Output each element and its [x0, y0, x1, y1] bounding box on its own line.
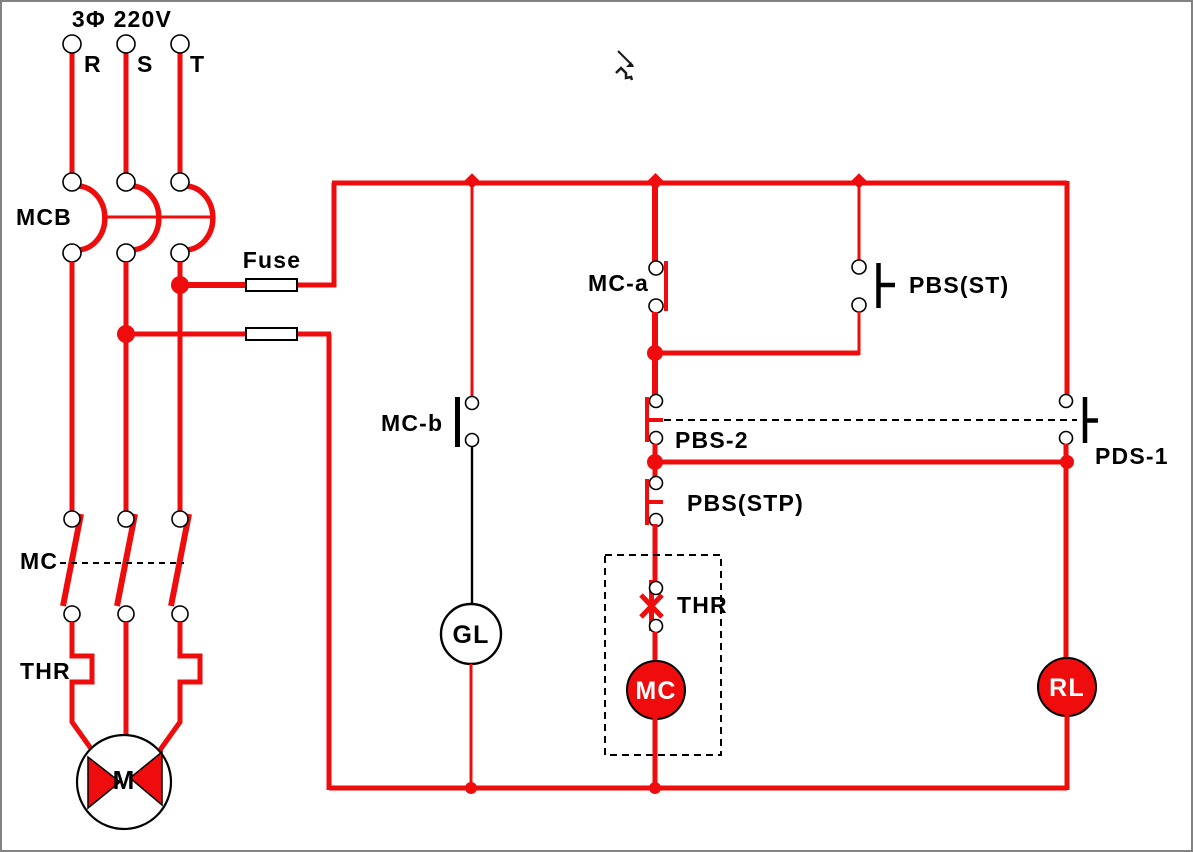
- wire GL branch upper: [471, 183, 474, 400]
- fuse F2 body: [246, 328, 297, 340]
- motor M right rotor wedge: [130, 752, 162, 805]
- breaker MCB pole 3 arc: [185, 186, 213, 250]
- breaker MCB pole 1 top contact: [63, 173, 81, 191]
- contactor MC pole 1 blade: [63, 514, 81, 606]
- pushbutton PBS-2 blade: [647, 397, 663, 442]
- wire S phase MCB to MC: [124, 262, 129, 513]
- heater THR pole 3: [155, 622, 200, 757]
- mechanical link PBS-2 to PBS-1: [664, 419, 1077, 421]
- contactor MC mechanical link: [60, 562, 184, 564]
- wire PBS(STP) to THR: [653, 524, 658, 584]
- svg-text:GL: GL: [452, 621, 489, 649]
- pushbutton PBS(ST) bottom terminal: [852, 298, 866, 312]
- wire PBS(ST) bottom link: [655, 351, 859, 356]
- wire RL link: [655, 460, 1067, 465]
- terminal R: [63, 35, 81, 53]
- breaker MCB pole 3 top contact: [171, 173, 189, 191]
- contact MC-b bottom terminal: [466, 434, 479, 447]
- wire PBS(ST) branch upper: [858, 183, 861, 262]
- junction rail GL branch: [464, 173, 480, 189]
- junction MC-a PBS(ST): [647, 345, 663, 361]
- pushbutton PDS-1 plunger: [1085, 397, 1098, 443]
- contact THR bottom terminal: [650, 620, 663, 633]
- wire R phase top: [70, 52, 75, 176]
- junction MC bottom rail: [649, 782, 661, 794]
- breaker MCB pole 2 bottom contact: [117, 244, 135, 262]
- breaker MCB pole 1 arc: [77, 186, 105, 250]
- wire top rail: [332, 181, 1067, 186]
- pushbutton PBS(ST) plunger: [879, 263, 896, 308]
- svg-text:MC: MC: [20, 548, 58, 574]
- svg-text:THR: THR: [677, 592, 728, 618]
- wire left dropper: [327, 334, 332, 790]
- wire PDS-1 to RL lamp: [1064, 444, 1069, 660]
- pushbutton PBS-2 bottom terminal: [650, 432, 663, 445]
- wire THR to coil MC: [653, 632, 658, 664]
- breaker MCB pole 1 bottom contact: [63, 244, 81, 262]
- contactor MC pole 2 top contact: [118, 511, 134, 527]
- wire R phase MCB to MC: [70, 262, 75, 513]
- contactor MC pole 2 blade: [117, 514, 135, 606]
- svg-text:PDS-1: PDS-1: [1095, 443, 1169, 469]
- junction RL link right: [1060, 455, 1074, 469]
- mouse cursor: [618, 51, 633, 66]
- lamp GL body: [441, 604, 501, 664]
- contactor MC pole 2 bottom contact: [118, 606, 134, 622]
- svg-text:RL: RL: [1049, 674, 1085, 702]
- motor M left rotor wedge: [88, 757, 120, 808]
- terminal T: [171, 35, 189, 53]
- wire riser to top rail: [332, 183, 337, 287]
- relay THR enclosure: [605, 555, 721, 755]
- contactor MC pole 1 top contact: [64, 511, 80, 527]
- wire fuse F2 to dropper: [296, 332, 331, 337]
- pushbutton PBS(STP) top terminal: [650, 477, 663, 490]
- svg-text:S: S: [137, 51, 154, 77]
- wire bottom rail: [329, 786, 1067, 791]
- wire MC-b to GL lamp: [471, 446, 473, 606]
- contact THR top terminal: [650, 582, 663, 595]
- wire right rail upper: [1065, 181, 1070, 397]
- wire PBS(ST) lower: [858, 311, 861, 355]
- junction rail MC-a branch: [647, 173, 664, 190]
- pushbutton PBS-2 top terminal: [650, 395, 663, 408]
- junction rail PBS(ST) branch: [851, 173, 867, 189]
- pushbutton PDS-1 top terminal: [1060, 395, 1073, 408]
- breaker MCB pole 2 top contact: [117, 173, 135, 191]
- svg-text:PBS(ST): PBS(ST): [909, 272, 1009, 298]
- contactor MC pole 3 top contact: [172, 511, 188, 527]
- svg-text:MC-a: MC-a: [588, 270, 649, 296]
- pushbutton PDS-1 bottom terminal: [1060, 432, 1073, 445]
- wire S phase to motor: [124, 622, 129, 740]
- svg-text:MCB: MCB: [16, 204, 72, 230]
- svg-text:MC: MC: [635, 677, 676, 705]
- svg-text:M: M: [113, 765, 136, 795]
- motor M body: [77, 735, 171, 829]
- svg-text:R: R: [84, 51, 102, 77]
- pushbutton PBS(ST) top terminal: [852, 260, 866, 274]
- lamp RL body: [1038, 658, 1096, 716]
- contact MC-b top terminal: [466, 397, 479, 410]
- contactor MC pole 3 bottom contact: [172, 606, 188, 622]
- pushbutton PBS(STP) bottom terminal: [650, 514, 663, 527]
- wire PBS-2 to junction: [653, 444, 658, 480]
- junction S-fuse2: [117, 325, 135, 343]
- wire T phase top: [178, 52, 183, 176]
- svg-text:MC-b: MC-b: [381, 410, 443, 436]
- fuse F1 body: [246, 279, 297, 291]
- junction T-fuse1: [171, 276, 189, 294]
- wire fuse F1 to riser: [296, 283, 336, 288]
- wire coil MC to bottom rail: [653, 717, 658, 790]
- heater THR pole 1: [72, 622, 97, 757]
- wire T to fuse F1: [180, 282, 247, 288]
- coil MC body: [627, 661, 685, 719]
- wire T phase MCB to MC: [178, 262, 183, 513]
- breaker MCB pole 3 bottom contact: [171, 244, 189, 262]
- wire MC-a to PBS-2: [652, 312, 658, 398]
- breaker MCB link bar: [102, 216, 211, 219]
- svg-text:3Φ 220V: 3Φ 220V: [72, 6, 172, 32]
- junction GL bottom rail: [465, 782, 477, 794]
- junction PBS-2 RL link: [647, 454, 663, 470]
- wire S phase top: [124, 52, 129, 176]
- wire MC-a branch upper: [652, 183, 658, 262]
- wire RL lamp to bottom rail: [1065, 714, 1070, 790]
- pushbutton PBS(STP) blade: [647, 479, 663, 525]
- svg-text:PBS(STP): PBS(STP): [687, 490, 804, 516]
- svg-text:Fuse: Fuse: [243, 247, 301, 273]
- contact MC-b blade: [455, 397, 460, 447]
- contactor MC pole 3 blade: [171, 514, 189, 606]
- wire S to fuse F2: [126, 332, 247, 337]
- terminal S: [117, 35, 135, 53]
- svg-text:PBS-2: PBS-2: [675, 427, 749, 453]
- svg-text:T: T: [190, 51, 205, 77]
- svg-text:THR: THR: [20, 658, 71, 684]
- contact MC-a top terminal: [649, 261, 663, 275]
- contactor MC pole 1 bottom contact: [64, 606, 80, 622]
- wire GL lamp to bottom rail: [470, 664, 473, 788]
- breaker MCB pole 2 arc: [131, 186, 159, 250]
- contact THR blade cross: [641, 580, 662, 631]
- contact MC-a blade: [664, 261, 668, 311]
- contact MC-a bottom terminal: [649, 299, 663, 313]
